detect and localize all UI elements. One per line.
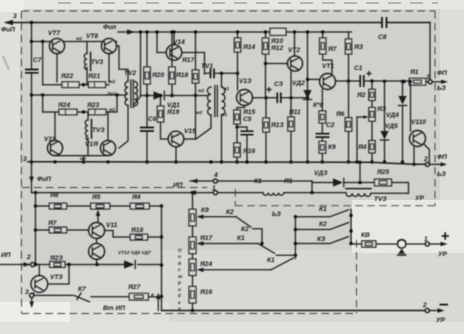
terminal 1 ИП [212,185,217,195]
transistor V19 [44,136,63,156]
svg-text:УР: УР [438,251,447,258]
wire collector bus y32 right part [286,31,352,33]
svg-text:ТV1: ТV1 [201,63,213,70]
capacitor C1 [354,65,372,87]
svg-text:3: 3 [13,13,17,20]
transformer TV3 output winding [346,189,409,203]
svg-text:м2: м2 [80,156,87,162]
wire TV1 right winding bottom to bus [220,115,223,164]
wire ИП lower right with relay K1 coil [218,178,346,195]
svg-text:Я14: Я14 [242,44,255,51]
svg-text:VД2: VД2 [292,80,305,87]
wire C7 column [30,21,33,164]
wire R3 wiper down [355,117,358,164]
resistor R2 [356,81,375,108]
resistor R4 [357,121,375,164]
svg-text:Я2З: Я2З [49,255,63,262]
svg-text:СЗ: СЗ [274,81,284,88]
wire lower osc resistor rail y112 [43,110,109,113]
svg-text:4: 4 [213,172,218,179]
wire VT13 collector loop [48,263,71,284]
dashed border left [21,11,23,314]
wire V15 emitter to bus [174,147,177,164]
transistor V12 [89,239,105,260]
resistor R5 (lower) [91,194,110,209]
switch K7 [34,286,90,302]
svg-text:Я17: Я17 [199,235,212,242]
wire V110 emitter to terminal 2 [423,144,429,164]
svg-text:К1: К1 [254,178,262,185]
svg-text:V11: V11 [106,222,118,229]
svg-text:ЯЗ: ЯЗ [353,44,364,51]
svg-text:VТ12 VД6 VД7: VТ12 VД6 VД7 [118,250,151,256]
transistor VT2 [287,47,302,71]
svg-text:Я21: Я21 [87,73,100,80]
svg-text:К9: К9 [201,207,209,214]
svg-text:VТ8: VТ8 [86,33,98,40]
wire oscillator base rail y84.7 [43,83,109,86]
svg-text:Я16: Я16 [199,289,212,296]
switch K3 right [295,236,348,244]
wire VT7 emitter [56,54,58,82]
dashed border right [434,11,436,206]
svg-text:ФиП: ФиП [37,176,51,183]
wire link stage1 [241,226,264,245]
resistor R18 (lower) [130,227,163,240]
wire rail A y95 [32,93,127,96]
svg-text:р: р [177,281,181,286]
svg-text:VДЗ: VДЗ [314,170,328,177]
svg-text:Я22: Я22 [60,73,73,80]
wire top bus with left arrow ФиП [4,20,430,80]
svg-text:Я27: Я27 [127,284,140,291]
svg-text:С6: С6 [148,116,157,123]
dashed border outer top [22,10,436,12]
svg-text:V1З: V1З [239,78,252,85]
wire VT2 base [264,62,288,65]
wire TV1 left winding bottom to V15 collector [196,115,211,139]
svg-text:Я24: Я24 [199,261,212,268]
resistor R7 (lower) [47,220,67,233]
wire bus to VD3 row [359,162,361,182]
wire row1 y206 [36,204,164,207]
terminal 2 ФП [423,154,447,178]
wire lower box top rail y192.6 [32,190,214,195]
svg-text:Я5: Я5 [91,194,101,201]
resistor R8 (УР) [361,232,376,247]
diode VD7 [118,250,151,269]
resistor R23 (lower) [49,255,65,267]
svg-text:VД5: VД5 [385,123,398,130]
jack symbol [398,249,406,255]
label plus [442,232,450,240]
svg-text:V19: V19 [44,136,56,143]
label ФиП left [1,27,15,34]
svg-text:Я4: Я4 [131,194,141,201]
svg-text:Я8: Я8 [49,192,59,199]
resistor R12 column [262,30,269,98]
wire V1R collector [107,112,109,141]
wire TV2 right column from y32 [139,30,142,95]
terminal 2 ИП input [0,262,35,266]
wire output y81 [335,79,409,83]
resistor R9 (emitter) [319,137,336,164]
svg-text:т: т [178,275,183,280]
svg-text:К*8: К*8 [313,102,324,109]
svg-text:КВ: КВ [361,232,370,239]
svg-text:й: й [178,292,181,299]
transistor VT8 [76,33,117,54]
svg-text:УР: УР [415,195,424,202]
label УР block [415,195,424,202]
wire bottom bus [162,310,426,312]
svg-text:ИП: ИП [173,182,183,189]
svg-text:Я20: Я20 [151,72,164,79]
svg-text:Я1: Я1 [283,178,293,185]
svg-text:V110: V110 [411,119,426,126]
svg-text:Я25: Я25 [376,169,389,176]
svg-text:К9: К9 [328,144,336,151]
capacitor C7 [25,57,42,73]
wire ИП row y264.5 [34,263,162,266]
svg-text:Фип: Фип [103,24,116,31]
resistor R17 column [181,30,199,97]
svg-text:2: 2 [422,302,427,309]
wire V13 output y97.8 [252,96,307,99]
wire main bus y162 [28,160,425,164]
switch K1 (wiper R24) [197,257,294,272]
svg-text:Я17: Я17 [181,57,194,64]
svg-text:Я10: Я10 [270,38,283,45]
svg-text:2м1: 2м1 [106,91,116,97]
svg-text:V1Я: V1Я [85,141,98,148]
wire VT7 base feed [41,40,44,85]
switch K2b (wiper R17) [197,235,275,253]
svg-text:ФП: ФП [437,154,447,161]
wire TV1 right winding top y73.3 [205,72,240,87]
svg-text:Я1З: Я1З [270,122,284,129]
resistor R8* (VT1 emitter) [313,89,326,133]
svg-text:V14: V14 [173,39,185,46]
svg-text:м1: м1 [223,86,230,92]
svg-text:К2: К2 [241,226,249,233]
svg-text:ЬЗ: ЬЗ [437,171,447,178]
svg-text:ФиП: ФиП [1,27,15,34]
galvanometer [398,239,406,248]
resistor R9 (chain) [189,207,209,237]
capacitor C2 [316,122,335,137]
wire VT1 base [306,78,320,81]
svg-text:К1: К1 [237,235,245,242]
wire V19 base feed [42,95,44,112]
svg-text:Я23: Я23 [86,102,99,109]
svg-text:Я19: Я19 [166,109,179,116]
resistor R17 (chain) [189,235,212,259]
svg-text:VТ7: VТ7 [48,30,60,37]
svg-text:Я7: Я7 [47,220,57,227]
wire V110 collector to bus [412,146,415,166]
dashed border bottom [22,313,357,315]
diode VD2 column [292,30,312,163]
svg-text:м2: м2 [198,88,205,94]
svg-text:с: с [178,268,181,273]
svg-text:Я7: Я7 [327,46,337,53]
svg-text:С8: С8 [378,34,387,41]
resistor R27 [91,284,162,300]
svg-text:ЬЗ: ЬЗ [437,85,447,92]
svg-text:П: П [178,248,182,254]
resistor R19 [157,94,179,139]
wire V12 emitter [96,259,98,264]
dashed border lower right [356,240,358,314]
label minus [440,304,449,306]
transistor V11 [89,222,118,239]
resistor R7 column [320,30,337,73]
wire ИП upper y181 with terminal 4 [190,172,312,183]
svg-text:VД4: VД4 [386,112,399,119]
svg-text:Я18: Я18 [130,227,143,234]
transistor V14 [155,30,185,60]
svg-text:VД1: VД1 [167,102,180,109]
wire V1R base feed [109,95,117,112]
svg-text:С5: С5 [243,116,252,123]
svg-text:Я4: Я4 [357,144,367,151]
svg-text:КЗ: КЗ [317,236,326,243]
resistor R4 (lower) [130,194,149,209]
label б3 [272,211,282,218]
svg-text:о: о [178,288,181,293]
wire chain column top [192,193,194,210]
svg-text:ТV3: ТV3 [91,59,103,66]
resistor R8 (lower) [49,192,67,209]
svg-text:м2: м2 [109,107,116,113]
capacitor C6 [140,94,157,164]
label Вт ИП [103,305,125,312]
wire V11 emitter to R18 [105,231,131,238]
resistor R21 [87,73,106,88]
diode VD5 column [380,81,398,163]
wire right rail lower box [160,206,163,311]
svg-text:3: 3 [23,156,27,163]
resistor R16 (chain) [189,287,212,313]
resistor R24 (osc) [57,102,77,115]
resistor R20 column [144,30,165,95]
resistor R24 (chain) [189,259,212,287]
svg-text:Вт ИП: Вт ИП [103,305,125,312]
svg-text:Я12: Я12 [270,45,283,52]
diode VD4 column [386,82,407,164]
transformer TV2 [106,46,141,148]
node 3 label top-left [13,13,17,20]
svg-text:м2: м2 [76,36,83,42]
switch K2 (wiper R9) [197,209,252,227]
svg-text:ЬЗ: ЬЗ [272,211,282,218]
wire R5 wiper from V11 [96,210,101,223]
resistor R10 (in bus) [270,28,286,52]
capacitor C8 [378,17,387,41]
svg-text:С1: С1 [354,65,363,72]
svg-text:м2: м2 [109,79,116,85]
terminal 3 ИП [25,289,34,298]
svg-text:1: 1 [212,185,216,192]
wire ФиП output down arrow [23,156,51,193]
resistor R11 [288,71,301,164]
resistor R25 [375,169,409,193]
transistor V15 [168,128,196,147]
svg-text:К1: К1 [267,257,275,264]
terminal 1 УР [424,236,448,258]
svg-text:VТЗ: VТЗ [50,274,63,281]
svg-text:о: о [178,255,181,260]
resistor R1 [402,69,425,85]
wire V13 emitter to R15 [237,105,245,110]
capacitor C3 [267,81,284,103]
wire oscillator top rail y41.5 [32,41,117,43]
wire V15 collector column [184,96,196,140]
svg-text:К2: К2 [319,221,327,228]
terminal 1 ФП [426,70,448,92]
label ИП middle [173,182,183,189]
wire VT8 emitter [108,54,110,82]
wire adjust arrow в [151,293,161,311]
svg-text:Я1: Я1 [409,69,419,76]
svg-text:ТV2: ТV2 [124,70,136,77]
transformer TV3 upper winding [84,42,103,85]
resistor R16 (emitter) [234,127,256,164]
svg-text:Я24: Я24 [57,102,70,109]
wire lower box left rail [34,193,37,265]
resistor R18 column [169,30,189,97]
resistor R3 top column [345,32,364,81]
wire link stage2 [276,254,297,257]
wire link x312 [310,181,313,194]
svg-text:Я6: Я6 [335,111,345,118]
svg-text:Я15: Я15 [242,109,255,116]
resistor R22 [60,73,79,88]
capacitor C4 (coupling at TV1) [211,69,215,79]
svg-text:УР: УР [436,317,445,324]
transistor VT1 [320,63,336,90]
diode VD3 [312,170,375,187]
svg-text:Я16: Я16 [242,148,255,155]
svg-text:Я11: Я11 [288,109,301,116]
svg-text:К2: К2 [226,209,234,216]
svg-text:м2: м2 [196,110,203,116]
wire lower osc emitter rail [55,156,108,164]
potentiometer R3 [357,106,387,121]
label Фип feed arrow [103,24,270,35]
wire V14 emitter to TV1 [182,53,205,75]
svg-text:С2: С2 [326,122,335,129]
transistor V1R [85,140,116,155]
svg-text:С7: С7 [33,57,42,64]
transistor V110 [409,80,426,147]
resistor R13 [263,98,285,164]
resistor R6 [335,81,352,164]
switch K1 right [295,206,348,217]
svg-text:V15: V15 [184,128,196,135]
wire row2 y230 [36,229,89,231]
dashed border mid (lower box top) [22,188,435,206]
transistor VT7 [48,30,65,54]
wire right rail ladder [294,215,297,259]
svg-text:2: 2 [423,156,428,163]
wire V19 collector [54,112,56,141]
resistor R23 (osc) [86,102,106,115]
resistor R14 column [234,30,255,90]
svg-text:ФП: ФП [437,70,447,77]
label Подстройка vertical [177,248,183,312]
svg-text:3: 3 [25,289,29,296]
transformer TV3 lower winding [85,112,105,156]
resistor R15 [234,109,256,124]
wire relay rail x351 [349,209,352,245]
transistor VT13 [31,265,64,293]
diode VD1 [154,91,181,109]
switch K2 right [295,221,348,230]
svg-text:в: в [151,293,154,298]
wire rail B y95.5 [141,95,209,97]
transformer TV1 [196,63,230,118]
terminal 2 УР [422,302,445,324]
label ИП input [1,252,31,261]
svg-text:Я18: Я18 [175,72,188,79]
svg-text:ТVЗ: ТVЗ [374,196,387,203]
svg-text:ИП: ИП [1,252,11,259]
wire VT2 collector [293,30,296,56]
wire terminal 3 ground arrow [29,298,34,309]
svg-text:К1: К1 [319,206,327,213]
transistor V13 [237,78,253,106]
capacitor C5 [235,116,253,162]
svg-text:д: д [178,261,181,267]
svg-text:2: 2 [26,254,31,261]
svg-text:ТVЗ: ТVЗ [92,127,105,134]
svg-text:Я2: Я2 [356,92,366,99]
svg-text:1: 1 [426,74,430,81]
label 1 terminal [426,74,430,81]
svg-text:К7: К7 [78,286,86,293]
wire УР plus row y244 [351,243,425,245]
svg-text:1: 1 [424,236,428,243]
